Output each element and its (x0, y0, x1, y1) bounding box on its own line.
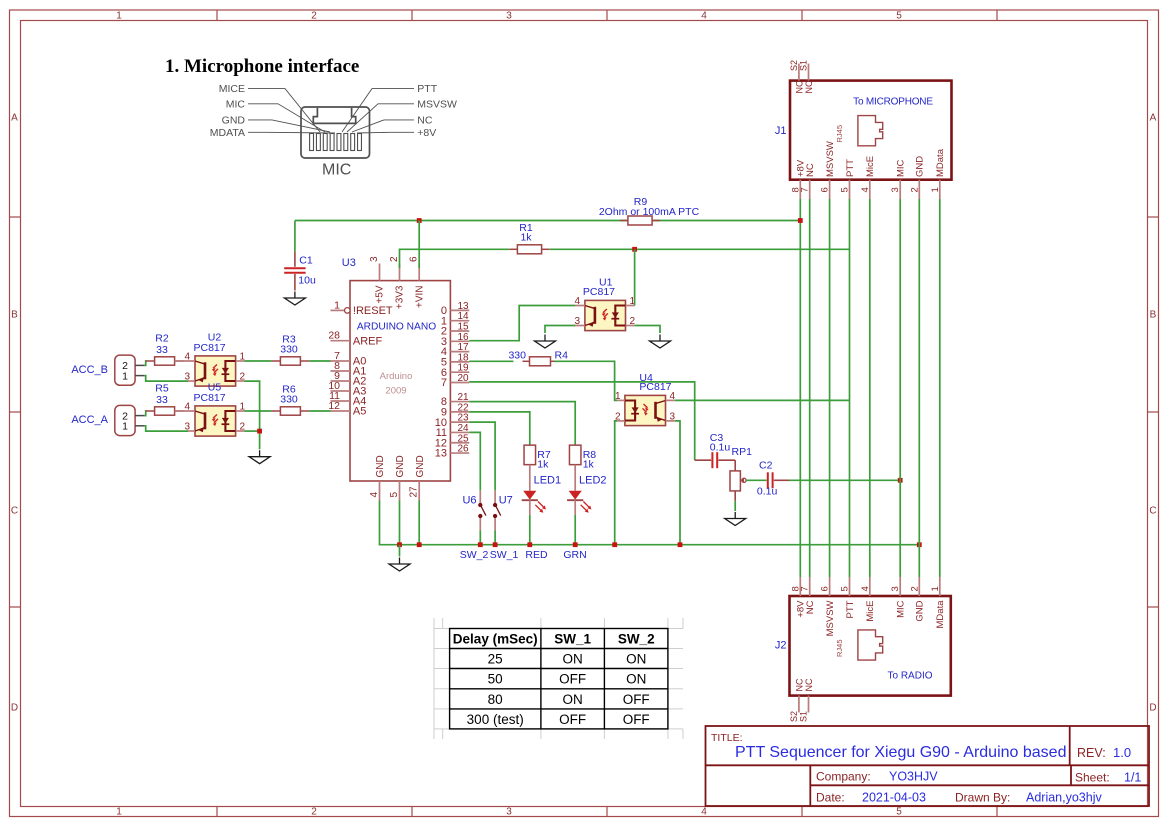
wire U3 to R7 (469, 412, 530, 445)
capacitor C2 (768, 472, 789, 488)
svg-text:20: 20 (458, 373, 470, 384)
wire C2 to MIC column (789, 479, 900, 481)
wire ACC_A pin1 to U5 pin3 (144, 426, 188, 431)
svg-text:4: 4 (184, 402, 190, 413)
J1 pin 4 stub (869, 180, 871, 199)
svg-text:13: 13 (435, 448, 447, 460)
U2 pin2 stub (236, 380, 245, 382)
svg-text:4: 4 (670, 391, 676, 402)
ground U1 pin3 (535, 335, 556, 349)
U5 pin3 stub (188, 430, 195, 432)
svg-text:5: 5 (389, 492, 400, 498)
U3 pin 8 stub (331, 370, 351, 372)
J2 pin 4 stub (869, 577, 871, 596)
svg-text:5: 5 (896, 807, 902, 818)
wire U3 to R8 (469, 402, 575, 446)
U3 !RESET inversion circle (345, 308, 351, 314)
svg-text:C: C (11, 506, 18, 517)
svg-text:PC817: PC817 (583, 286, 615, 298)
wire U2 pin2 down to ground (245, 381, 260, 449)
svg-text:!RESET: !RESET (353, 305, 393, 317)
svg-text:C2: C2 (759, 460, 773, 472)
svg-text:TITLE:: TITLE: (711, 732, 743, 744)
junction U2/U5 ground node (257, 429, 262, 434)
optocoupler U5 PC817 (195, 406, 236, 436)
resistor R2 (146, 357, 184, 365)
svg-text:3: 3 (506, 807, 512, 818)
svg-text:3: 3 (670, 412, 676, 423)
wire R1 to J1 PTT column (550, 248, 850, 250)
svg-text:NC: NC (805, 600, 816, 614)
optocoupler U1 PC817 (585, 300, 626, 330)
svg-text:1. Microphone interface: 1. Microphone interface (165, 56, 359, 77)
svg-text:4: 4 (860, 187, 871, 192)
resistor R5 (146, 407, 184, 415)
wire top rail left of R9 (295, 220, 628, 222)
junction rail GRN (573, 542, 578, 547)
U3 right pin 3 stub (450, 340, 469, 342)
svg-text:S1: S1 (799, 711, 809, 722)
svg-text:7: 7 (441, 377, 447, 389)
svg-text:ON: ON (562, 652, 582, 667)
svg-text:5: 5 (840, 187, 851, 192)
svg-text:PTT: PTT (845, 600, 856, 618)
svg-text:PC817: PC817 (639, 381, 671, 393)
svg-text:28: 28 (328, 330, 340, 342)
svg-text:4: 4 (860, 586, 871, 591)
U3 top pin 2 stub (399, 264, 401, 281)
svg-text:A: A (1150, 113, 1157, 124)
MIC RJ45 jack drawing (301, 107, 370, 158)
svg-text:MIC: MIC (896, 600, 907, 618)
J1 pin S1 stub (808, 64, 810, 81)
J2 pin S2 stub (798, 696, 800, 713)
svg-text:LED2: LED2 (579, 475, 607, 487)
J2 pin 5 stub (849, 577, 851, 596)
svg-text:300 (test): 300 (test) (467, 712, 524, 727)
junction rail SW_2 (478, 542, 483, 547)
op-amp U3 ARDUINO NANO body (350, 281, 450, 481)
wire switch U6 to rail (479, 530, 481, 544)
svg-text:MDATA: MDATA (210, 127, 245, 139)
U2 pin4 stub (175, 360, 195, 362)
U3 right pin 13 stub (450, 452, 469, 454)
wire ACC_B pin1 to U2 pin3 (144, 376, 188, 382)
wire RP1 to ground (734, 501, 736, 511)
J1 pin 6 stub (829, 180, 831, 199)
svg-text:1/1: 1/1 (1124, 771, 1141, 785)
svg-text:D: D (1149, 703, 1156, 714)
wire LED1 to rail (529, 515, 531, 545)
svg-text:J1: J1 (775, 125, 787, 137)
connector J2 body (790, 596, 951, 696)
U3 right pin 5 stub (450, 361, 469, 363)
U4 pin2 stub (617, 420, 625, 422)
svg-text:Drawn By:: Drawn By: (955, 791, 1010, 805)
svg-text:MicE: MicE (865, 601, 876, 622)
wire U4 pin4 to PTT column (675, 399, 850, 401)
svg-text:1: 1 (116, 11, 122, 22)
svg-text:GND: GND (915, 156, 926, 177)
svg-text:RP1: RP1 (732, 446, 753, 458)
svg-text:Sheet:: Sheet: (1075, 771, 1110, 785)
U3 pin 1 stub (331, 309, 345, 311)
U3 bottom pin 4 stub (379, 481, 381, 501)
U3 pin 28 stub (331, 340, 351, 342)
U4 pin1 stub (617, 399, 625, 401)
wire U5 pin1 to R6 (245, 410, 272, 412)
svg-text:To MICROPHONE: To MICROPHONE (853, 97, 933, 108)
wire bus MSVSW column (829, 199, 831, 577)
svg-text:MData: MData (935, 148, 946, 177)
wire ACC_B pin2 to R2 (144, 361, 146, 365)
wire U4 pin3 down to ground rail (675, 421, 680, 545)
svg-text:OFF: OFF (559, 672, 586, 687)
delay table (450, 629, 668, 729)
svg-text:SW_1: SW_1 (490, 549, 519, 561)
wire U4 pin2 down to ground rail (615, 421, 618, 545)
svg-text:0.1u: 0.1u (757, 486, 778, 498)
svg-text:1k: 1k (537, 459, 549, 471)
svg-text:J2: J2 (775, 640, 787, 652)
svg-text:MIC: MIC (226, 98, 246, 110)
junction rail U4 pin2 (612, 542, 617, 547)
svg-text:MSVSW: MSVSW (417, 98, 457, 110)
resistor R1 (509, 245, 549, 254)
resistor R4 (523, 357, 558, 366)
U3 pin 11 stub (331, 400, 351, 402)
U3 top pin 6 stub (418, 264, 420, 281)
svg-text:YO3HJV: YO3HJV (889, 770, 938, 784)
svg-text:ARDUINO NANO: ARDUINO NANO (357, 322, 436, 333)
svg-text:S2: S2 (789, 711, 799, 722)
svg-text:SW_2: SW_2 (618, 632, 655, 647)
svg-text:Arduino: Arduino (380, 371, 413, 382)
ground RP1 (725, 512, 746, 526)
svg-text:1: 1 (122, 421, 128, 433)
svg-text:+5V: +5V (375, 285, 386, 303)
U1 pin3 stub (575, 325, 585, 327)
svg-text:ACC_B: ACC_B (71, 364, 108, 376)
U5 pin1 stub (236, 410, 245, 412)
switch U7 (494, 490, 496, 530)
wire R3 to U3 A0 (309, 360, 330, 362)
svg-text:330: 330 (508, 350, 526, 362)
svg-text:NC: NC (794, 678, 804, 691)
connector ACC_A (115, 405, 135, 435)
svg-text:REV:: REV: (1077, 746, 1106, 760)
ground main rail (389, 558, 410, 572)
svg-text:SW_1: SW_1 (554, 632, 591, 647)
J1 pin S2 stub (798, 64, 800, 81)
optocoupler U2 PC817 (195, 356, 236, 386)
wire U1 pin2 to ground (635, 326, 660, 334)
U1 pin1 stub (626, 305, 635, 307)
wire U3 pin3 to U1 pin4 (469, 306, 575, 341)
svg-text:5: 5 (840, 586, 851, 591)
svg-text:3: 3 (506, 11, 512, 22)
svg-text:27: 27 (409, 486, 420, 498)
wire bus MData column (939, 199, 941, 577)
LED LED2 (567, 465, 591, 515)
J2 RJ45 symbol (858, 630, 883, 660)
ground U1 pin2 (650, 335, 671, 349)
svg-text:C1: C1 (299, 255, 313, 267)
junction rail pin27 (417, 542, 422, 547)
wire R4 to U4 pin1 (555, 361, 618, 400)
svg-text:MICE: MICE (219, 83, 245, 95)
MIC pin leader lines (248, 89, 414, 133)
optocoupler U4 PC817 (625, 395, 666, 425)
U1 pin2 stub (626, 325, 635, 327)
junction rail / gnd stem (397, 542, 402, 547)
junction R1 / U1 pin1 (632, 247, 637, 252)
svg-text:26: 26 (458, 444, 470, 455)
svg-text:LED1: LED1 (534, 475, 562, 487)
svg-text:3: 3 (890, 187, 901, 192)
svg-text:PTT Sequencer for Xiegu G90 -: PTT Sequencer for Xiegu G90 - Arduino ba… (735, 744, 1066, 761)
svg-text:1k: 1k (520, 232, 532, 244)
svg-text:SW_2: SW_2 (460, 549, 489, 561)
junction +8V / top rail (798, 218, 803, 223)
U3 right pin 10 stub (450, 421, 469, 423)
svg-text:2: 2 (909, 586, 920, 591)
svg-text:1: 1 (930, 586, 941, 591)
svg-text:NC: NC (794, 80, 804, 93)
wire U5 pin2 to ground node (245, 430, 260, 432)
resistor R8 (569, 445, 581, 465)
svg-text:NC: NC (417, 115, 433, 127)
U3 bottom pin 5 stub (399, 481, 401, 501)
wire rail to ground symbol (399, 545, 401, 557)
wire U1 pin1 up to R1 net (634, 249, 636, 305)
U3 right pin 11 stub (450, 431, 469, 433)
svg-text:33: 33 (156, 344, 168, 356)
svg-text:GND: GND (915, 600, 926, 621)
wire U2 pin1 to R3 (245, 360, 272, 362)
wire ACC_A pin2 to R5 (144, 411, 146, 416)
svg-text:2Ohm or 100mA PTC: 2Ohm or 100mA PTC (599, 206, 700, 218)
U3 right pin 9 stub (450, 411, 469, 413)
J1 pin 8 stub (799, 180, 801, 199)
junction +VIN / top rail (417, 218, 422, 223)
svg-text:0.1u: 0.1u (710, 442, 731, 454)
connector J1 body (790, 81, 952, 180)
svg-text:GND: GND (222, 115, 246, 127)
svg-text:50: 50 (488, 672, 503, 687)
svg-text:1: 1 (930, 187, 941, 192)
svg-text:NC: NC (804, 80, 814, 93)
junction C2 / MIC column (898, 478, 903, 483)
junction rail RED (527, 542, 532, 547)
svg-text:Delay (mSec): Delay (mSec) (453, 632, 538, 647)
U3 right pin 8 stub (450, 401, 469, 403)
svg-text:NC: NC (804, 678, 814, 691)
wire LED2 to rail (574, 515, 576, 545)
svg-text:U7: U7 (499, 495, 513, 507)
capacitor C3 (695, 452, 736, 468)
U3 right pin 2 stub (450, 330, 469, 332)
svg-text:2: 2 (311, 11, 317, 22)
J1 pin 2 stub (918, 180, 920, 199)
svg-text:OFF: OFF (623, 692, 650, 707)
svg-text:Adrian,yo3hjv: Adrian,yo3hjv (1026, 791, 1102, 805)
wire U3 GND pin27 to rail (418, 501, 420, 545)
svg-text:3: 3 (574, 316, 580, 327)
frame row ticks (10, 216, 21, 218)
svg-text:MIC: MIC (896, 159, 907, 177)
J2 pin 8 stub (799, 577, 801, 596)
svg-text:1: 1 (122, 370, 128, 382)
U1 pin4 stub (575, 305, 585, 307)
svg-text:NC: NC (805, 163, 816, 177)
svg-text:MSVSW: MSVSW (825, 141, 836, 177)
U3 right pin 0 stub (450, 309, 469, 311)
svg-text:MicE: MicE (865, 156, 876, 177)
resistor R6 (271, 407, 309, 415)
svg-text:1: 1 (334, 299, 340, 311)
svg-text:+8V: +8V (417, 127, 436, 139)
ground U2/U5 (249, 450, 270, 464)
J2 pin 2 stub (918, 577, 920, 596)
svg-text:ACC_A: ACC_A (71, 414, 108, 426)
U3 right pin 1 stub (450, 320, 469, 322)
svg-text:B: B (1150, 310, 1157, 321)
wire U3 to switch U7 (469, 422, 495, 490)
svg-text:MData: MData (935, 600, 946, 629)
svg-text:GRN: GRN (563, 549, 586, 561)
svg-text:Company:: Company: (816, 770, 871, 784)
J2 pin 7 stub (809, 577, 811, 596)
svg-text:6: 6 (409, 256, 420, 262)
svg-text:U3: U3 (342, 257, 356, 269)
J2 pin 3 stub (899, 577, 901, 596)
wire C1 to +rail (294, 221, 296, 252)
connector ACC_B (115, 355, 135, 385)
J1 pin 3 stub (899, 180, 901, 199)
resistor R3 (271, 357, 309, 365)
svg-text:330: 330 (280, 394, 298, 406)
svg-text:RED: RED (525, 549, 548, 561)
svg-text:2009: 2009 (385, 386, 406, 397)
J1 RJ45 symbol (858, 116, 883, 146)
svg-text:2: 2 (909, 187, 920, 192)
svg-text:25: 25 (488, 652, 503, 667)
J1 pin 1 stub (939, 180, 941, 199)
svg-text:3: 3 (369, 256, 380, 262)
wire bus MicE column (869, 199, 871, 577)
U3 pin 7 stub (331, 360, 351, 362)
svg-text:2: 2 (311, 807, 317, 818)
svg-text:80: 80 (488, 692, 503, 707)
svg-text:4: 4 (184, 352, 190, 363)
frame column ticks (216, 10, 218, 21)
wire bus NC column (809, 199, 811, 577)
svg-text:A5: A5 (353, 406, 366, 418)
svg-text:S2: S2 (789, 60, 799, 71)
svg-text:1: 1 (615, 391, 621, 402)
svg-text:6: 6 (820, 187, 831, 192)
svg-text:5: 5 (896, 11, 902, 22)
svg-text:330: 330 (280, 344, 298, 356)
svg-text:C: C (1149, 506, 1156, 517)
svg-text:GND: GND (415, 455, 426, 477)
svg-text:+3V3: +3V3 (395, 285, 406, 309)
svg-text:D: D (11, 703, 18, 714)
title block (706, 726, 1150, 806)
resistor R9 (620, 216, 660, 225)
svg-text:S1: S1 (799, 60, 809, 71)
svg-text:A: A (11, 113, 18, 124)
capacitor C1 (284, 251, 305, 290)
svg-text:10u: 10u (298, 275, 316, 287)
svg-text:3: 3 (184, 422, 190, 433)
wire R6 to U3 A5 (309, 410, 330, 412)
svg-text:PC817: PC817 (194, 342, 226, 354)
wire bus +8V column (799, 199, 801, 577)
svg-text:OFF: OFF (623, 712, 650, 727)
U3 pin 10 stub (331, 390, 351, 392)
LED LED1 (522, 465, 546, 515)
potentiometer RP1 (730, 460, 746, 501)
U3 right pin 6 stub (450, 371, 469, 373)
U3 right pin 12 stub (450, 442, 469, 444)
J2 pin 6 stub (829, 577, 831, 596)
switch U6 (479, 490, 481, 530)
svg-text:3: 3 (890, 586, 901, 591)
junction rail SW_1 (493, 542, 498, 547)
U3 right pin 4 stub (450, 351, 469, 353)
U5 pin4 stub (175, 410, 195, 412)
J2 pin S1 stub (808, 696, 810, 713)
J1 pin 7 stub (809, 180, 811, 199)
svg-text:3: 3 (184, 372, 190, 383)
svg-text:R5: R5 (155, 383, 169, 395)
ground C1 (284, 292, 305, 306)
ground rail wire (380, 501, 920, 545)
U3 top pin 3 stub (379, 264, 381, 281)
svg-text:R4: R4 (555, 350, 569, 362)
svg-text:RJ45: RJ45 (835, 639, 844, 657)
wire U3 pin5 to R4 (469, 360, 513, 362)
svg-text:R2: R2 (155, 333, 169, 345)
svg-text:4: 4 (574, 296, 580, 307)
svg-text:4: 4 (369, 492, 380, 498)
svg-text:GND: GND (375, 455, 386, 477)
U3 bottom pin 27 stub (418, 481, 420, 501)
svg-text:U6: U6 (462, 495, 476, 507)
U4 pin3 stub (666, 420, 675, 422)
svg-text:To RADIO: To RADIO (887, 671, 932, 682)
wire switch U7 to rail (494, 530, 496, 544)
svg-text:ON: ON (626, 672, 646, 687)
U2 pin3 stub (188, 380, 195, 382)
svg-text:1: 1 (116, 807, 122, 818)
svg-text:OFF: OFF (559, 712, 586, 727)
svg-text:1.0: 1.0 (1113, 745, 1131, 760)
wire U3 pin7 to C3 (469, 382, 694, 460)
svg-text:6: 6 (820, 586, 831, 591)
wire top rail right of R9 (652, 220, 800, 222)
U3 pin 12 stub (331, 410, 351, 412)
wire U3 to switch U6 (469, 432, 480, 490)
svg-text:PC817: PC817 (194, 392, 226, 404)
svg-text:GND: GND (395, 455, 406, 477)
U4 pin4 stub (666, 399, 675, 401)
junction rail GND column (917, 542, 922, 547)
svg-text:MIC: MIC (322, 162, 351, 179)
svg-text:Date:: Date: (816, 791, 845, 805)
